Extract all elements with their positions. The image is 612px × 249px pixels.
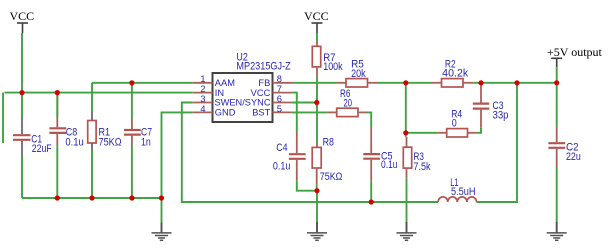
resistor R3	[403, 137, 411, 223]
wire SW pin3 down and along bottom	[182, 103, 438, 203]
pin 3 stub	[193, 102, 213, 104]
svg-text:+5V output: +5V output	[547, 45, 603, 59]
svg-text:75KΩ: 75KΩ	[320, 171, 343, 183]
svg-text:40.2k: 40.2k	[442, 67, 469, 79]
svg-text:8: 8	[277, 74, 282, 84]
capacitor C3	[473, 83, 489, 127]
svg-text:2: 2	[200, 84, 205, 94]
label R1 value	[99, 127, 122, 149]
label R2 value	[442, 58, 469, 79]
junction R4/R3	[403, 130, 408, 135]
capacitor C2	[548, 83, 565, 223]
power symbol VCC (left)	[17, 23, 28, 33]
label R6 value	[340, 88, 352, 110]
svg-text:6: 6	[277, 94, 282, 104]
capacitor C1	[13, 93, 31, 198]
wire R2 right to +5V node	[474, 82, 557, 84]
wire VCC pin7 jog to C4 column	[292, 93, 297, 132]
svg-text:1: 1	[200, 74, 205, 84]
svg-text:33p: 33p	[493, 110, 509, 122]
resistor R2	[431, 79, 474, 87]
ground symbol (under R3)	[397, 222, 417, 240]
svg-text:BST: BST	[252, 108, 270, 118]
label R4 value	[451, 109, 462, 130]
IC U2 MP2315GJ-Z body	[213, 73, 273, 122]
svg-text:20: 20	[344, 98, 353, 110]
svg-text:SWEN/SYNC: SWEN/SYNC	[215, 98, 271, 108]
wire +5V stem to line	[556, 67, 558, 83]
svg-text:4: 4	[200, 104, 205, 114]
svg-text:VCC: VCC	[251, 88, 271, 98]
pin 6 stub	[273, 102, 293, 104]
junction AAM/C7	[129, 80, 134, 85]
wire VIN rail	[5, 92, 193, 94]
svg-text:75KΩ: 75KΩ	[99, 136, 122, 148]
svg-text:7: 7	[277, 84, 282, 94]
pin 8 stub	[273, 82, 294, 84]
capacitor C4	[289, 132, 317, 191]
junction GND rail/pin4	[159, 195, 164, 200]
junction GND rail/C7	[129, 195, 134, 200]
power symbol +5V output	[551, 58, 562, 67]
inductor L1	[438, 197, 476, 202]
wire R4 line	[406, 132, 438, 134]
pin 4 stub	[193, 111, 213, 113]
svg-text:0.1u: 0.1u	[273, 160, 290, 172]
capacitor C5	[363, 128, 380, 202]
svg-text:C4: C4	[276, 142, 287, 154]
junction GND rail/R1	[89, 195, 94, 200]
svg-text:R8: R8	[323, 137, 334, 149]
resistor R6	[327, 108, 367, 116]
wire R4 right to C3 bottom	[476, 127, 481, 133]
ground symbol (left)	[152, 223, 172, 241]
svg-text:7.5k: 7.5k	[414, 161, 432, 173]
label C2 value	[566, 141, 581, 163]
wire AAM line	[92, 82, 193, 84]
ground symbol (under R8)	[307, 222, 327, 240]
svg-text:GND: GND	[215, 108, 236, 118]
label R3 value	[414, 151, 432, 173]
label C1 value	[31, 133, 52, 155]
svg-text:0: 0	[452, 118, 457, 130]
junction C5/SW	[369, 199, 374, 204]
wire node A vertical to R4/R3	[405, 83, 407, 137]
resistor R5	[337, 79, 377, 87]
wire GND pin4 to rail and ground	[162, 112, 193, 223]
wire GND rail (left)	[22, 197, 162, 199]
junction GND rail/C8	[55, 195, 60, 200]
label C3 value	[493, 100, 509, 122]
junction +5V/C2	[554, 80, 559, 85]
wire FB to node A	[377, 82, 431, 84]
junction VIN/C8	[55, 90, 60, 95]
svg-text:20k: 20k	[351, 68, 366, 80]
ground symbol (under C2)	[547, 222, 567, 240]
svg-text:VCC: VCC	[304, 9, 329, 23]
resistor R7	[312, 33, 320, 103]
svg-text:22uF: 22uF	[32, 143, 52, 155]
svg-text:AAM: AAM	[215, 78, 235, 88]
label R7 value	[323, 52, 343, 73]
svg-text:5: 5	[277, 104, 282, 114]
svg-text:VCC: VCC	[10, 9, 35, 23]
wire C4/R8 junction down to ground	[316, 191, 318, 223]
junction VIN/C1	[19, 90, 24, 95]
label U2	[236, 51, 291, 72]
resistor R1	[88, 83, 96, 198]
power symbol VCC (middle)	[312, 23, 323, 33]
svg-text:IN: IN	[215, 88, 224, 98]
svg-text:22u: 22u	[566, 151, 581, 163]
svg-text:1n: 1n	[141, 136, 151, 148]
pin numbers right	[277, 74, 282, 114]
label R5 value	[351, 58, 366, 80]
wire stub at left edge	[2, 93, 4, 143]
pin 7 stub	[273, 92, 293, 94]
capacitor C7	[124, 83, 141, 198]
capacitor C8	[49, 93, 66, 198]
junction EN node	[314, 100, 319, 105]
svg-text:100k: 100k	[323, 61, 343, 73]
resistor R8	[312, 103, 321, 191]
label C4 value	[273, 142, 290, 172]
svg-text:0.1u: 0.1u	[381, 159, 398, 171]
label C7 value	[141, 127, 152, 149]
label R8 value	[320, 137, 343, 184]
junction C4/R8 gnd	[314, 188, 319, 193]
label C8 value	[65, 127, 83, 149]
wire VCC left down to VIN rail	[21, 33, 23, 93]
svg-text:FB: FB	[258, 78, 270, 88]
junction FB node A	[403, 80, 408, 85]
wire FB line	[293, 82, 337, 84]
pin numbers left	[200, 74, 205, 114]
pin 2 stub	[193, 92, 213, 94]
svg-text:5.5uH: 5.5uH	[451, 186, 476, 198]
junction R2/C3	[478, 80, 483, 85]
svg-text:0.1u: 0.1u	[65, 136, 83, 148]
resistor R4	[438, 129, 477, 137]
pin 5 stub	[273, 111, 292, 113]
label L1 value	[450, 177, 475, 198]
wire EN pin6 to node	[292, 102, 317, 104]
label C5 value	[381, 150, 398, 171]
wire L1 right up to output line	[477, 83, 517, 202]
svg-text:3: 3	[200, 94, 205, 104]
wire BST pin5 to R6	[292, 111, 327, 113]
svg-text:MP2315GJ-Z: MP2315GJ-Z	[236, 60, 291, 72]
junction L1/output	[514, 80, 519, 85]
wire R6 to C5	[367, 112, 372, 128]
pin 1 stub	[193, 82, 213, 84]
